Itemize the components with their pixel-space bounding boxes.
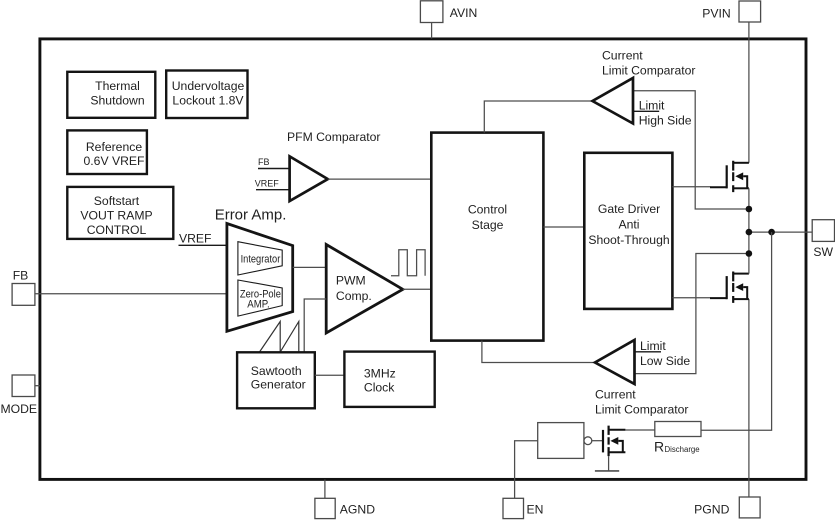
wire gate driver to low-side FET gate <box>672 297 710 299</box>
svg-text:Generator: Generator <box>251 377 306 391</box>
wire high-side comparator output to control stage <box>484 101 592 133</box>
svg-text:Discharge: Discharge <box>665 445 700 454</box>
wire error amp output to PWM comparator <box>293 266 327 268</box>
transistor high-side NMOS <box>710 161 749 192</box>
wire AGND stub <box>324 480 326 499</box>
block Sawtooth Generator <box>237 352 315 408</box>
op-amp high-side current limit comparator <box>593 78 634 124</box>
wire sawtooth into PWM comparator <box>304 299 326 352</box>
block Control Stage <box>431 133 543 341</box>
wire PWM comparator output to control stage <box>403 288 432 290</box>
pin MODE <box>1 375 38 416</box>
node junction dot 1 <box>746 206 753 213</box>
node junction dot 4 <box>746 250 753 257</box>
wire low-side comparator output to control stage <box>482 341 595 363</box>
node FB stub into PFM comparator <box>258 168 290 170</box>
wire AVIN stub <box>431 23 433 39</box>
svg-text:PFM Comparator: PFM Comparator <box>287 130 380 144</box>
logic inverter <box>538 423 592 459</box>
wire SW tap down to discharge resistor <box>701 232 772 430</box>
pin AGND <box>315 498 375 518</box>
svg-text:PGND: PGND <box>694 503 729 517</box>
ground <box>595 456 619 471</box>
transistor low-side NMOS <box>710 272 749 303</box>
wire PFM comparator output to control stage <box>328 178 432 180</box>
svg-text:Error Amp.: Error Amp. <box>215 207 287 224</box>
icon square wave <box>391 250 425 276</box>
IC boundary border <box>40 39 806 480</box>
wire FB to error amp <box>35 293 227 295</box>
svg-text:High Side: High Side <box>639 113 692 127</box>
block Reference 0.6V VREF <box>67 130 147 174</box>
wire sawtooth generator to clock <box>315 374 345 376</box>
svg-text:VREF: VREF <box>255 178 280 188</box>
svg-text:Lockout 1.8V: Lockout 1.8V <box>172 93 244 107</box>
svg-text:Undervoltage: Undervoltage <box>172 79 245 93</box>
transistor discharge NMOS <box>603 426 625 457</box>
wire EN to inverter input <box>515 441 538 499</box>
svg-text:SW: SW <box>813 245 833 259</box>
pin AVIN <box>420 1 477 23</box>
svg-text:PWM: PWM <box>336 274 366 288</box>
svg-text:0.6V VREF: 0.6V VREF <box>84 154 145 168</box>
svg-text:Clock: Clock <box>364 381 395 395</box>
svg-text:Current: Current <box>602 49 643 63</box>
svg-text:Limit: Limit <box>639 98 665 112</box>
node junction dot 3 (SW tap) <box>768 229 775 236</box>
svg-text:Gate Driver: Gate Driver <box>598 202 660 216</box>
svg-text:Limit: Limit <box>640 339 666 353</box>
svg-text:AVIN: AVIN <box>450 6 478 20</box>
svg-text:PVIN: PVIN <box>702 6 730 20</box>
node junction dot 2 (SW) <box>746 229 753 236</box>
block 3MHz Clock <box>344 352 434 407</box>
svg-text:Low Side: Low Side <box>640 354 690 368</box>
svg-text:Reference: Reference <box>86 140 142 154</box>
block zero-pole amp (inside error amp) <box>238 280 282 316</box>
svg-text:Comp.: Comp. <box>336 289 372 303</box>
wire resistor to discharge FET drain <box>625 429 654 431</box>
wire gate driver to high-side FET gate <box>672 186 710 188</box>
node VREF stub into PFM comparator <box>256 189 290 191</box>
svg-text:VREF: VREF <box>179 232 212 246</box>
op-amp error amplifier <box>227 224 293 332</box>
op-amp PFM comparator <box>290 156 328 201</box>
block integrator (inside error amp) <box>238 242 282 275</box>
svg-text:MODE: MODE <box>1 402 38 416</box>
svg-text:VOUT RAMP: VOUT RAMP <box>80 209 152 223</box>
wire high-side current sense <box>633 91 749 209</box>
op-amp PWM comparator <box>326 245 403 334</box>
svg-text:Current: Current <box>595 388 636 402</box>
svg-text:FB: FB <box>13 269 29 283</box>
resistor R_Discharge <box>654 422 701 455</box>
wire MODE stub <box>35 385 40 387</box>
svg-text:Limit Comparator: Limit Comparator <box>602 64 695 78</box>
block Undervoltage Lockout 1.8V <box>166 71 247 119</box>
wire low-side current sense <box>635 254 749 374</box>
wire low-side FET source to PGND <box>748 299 750 497</box>
pin PVIN <box>702 1 760 22</box>
svg-text:Sawtooth: Sawtooth <box>251 364 302 378</box>
svg-text:Control: Control <box>468 203 507 217</box>
wire inverter output to discharge FET gate <box>592 440 602 442</box>
svg-text:Integrator: Integrator <box>241 254 281 266</box>
block Gate Driver Anti Shoot-Through <box>584 153 672 309</box>
wire SW node to low-side FET drain <box>748 232 750 274</box>
wire high-side FET source to SW node <box>748 188 750 232</box>
block Softstart VOUT RAMP CONTROL <box>67 187 173 239</box>
svg-text:AGND: AGND <box>340 502 375 516</box>
svg-text:CONTROL: CONTROL <box>87 223 147 237</box>
svg-text:Shutdown: Shutdown <box>90 93 144 107</box>
icon sawtooth waveform <box>260 322 299 353</box>
wire PVIN rail down to high-side FET drain <box>748 22 750 163</box>
svg-text:Anti: Anti <box>618 218 639 232</box>
pin PGND <box>694 497 760 518</box>
svg-text:R: R <box>654 439 664 455</box>
pin SW <box>812 220 834 259</box>
svg-text:3MHz: 3MHz <box>364 367 396 381</box>
block Thermal Shutdown <box>67 72 155 118</box>
svg-text:Shoot-Through: Shoot-Through <box>588 233 669 247</box>
svg-text:Thermal: Thermal <box>95 79 140 93</box>
svg-text:FB: FB <box>258 157 270 167</box>
pin EN <box>503 498 543 518</box>
svg-text:EN: EN <box>527 502 544 516</box>
svg-text:Stage: Stage <box>472 218 504 232</box>
pin FB <box>12 269 35 306</box>
svg-text:Limit Comparator: Limit Comparator <box>595 403 688 417</box>
svg-text:AMP.: AMP. <box>247 299 269 311</box>
wire control stage to gate driver <box>543 226 584 228</box>
svg-text:Softstart: Softstart <box>94 194 140 208</box>
wire SW node horizontal <box>749 231 812 233</box>
op-amp low-side current limit comparator <box>595 340 635 384</box>
